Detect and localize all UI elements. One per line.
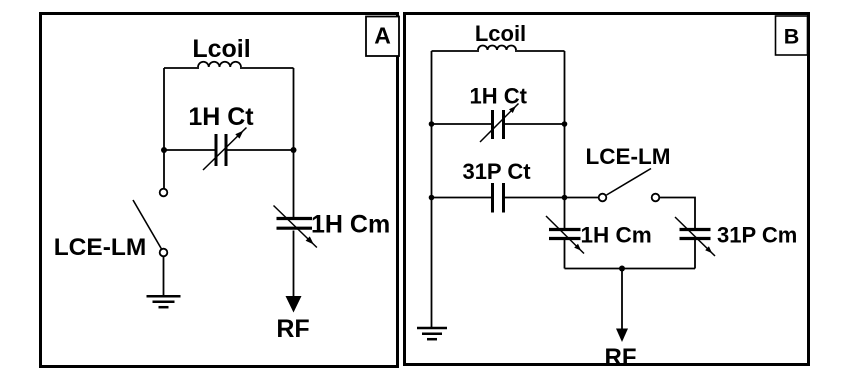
capacitor 1H Cm plates (B) — [549, 230, 581, 239]
wire top-right segment (A) — [240, 67, 294, 69]
wire switch to right branch (B) — [659, 198, 695, 230]
label 1H Cm (A) — [311, 211, 390, 239]
svg-text:Lcoil: Lcoil — [192, 35, 250, 63]
label LCE-LM (B) — [586, 144, 671, 169]
inductor Lcoil (B) — [478, 46, 516, 50]
label 1H Ct (A) — [188, 103, 254, 131]
svg-text:Lcoil: Lcoil — [475, 21, 526, 46]
svg-text:31P Ct: 31P Ct — [462, 159, 531, 184]
svg-text:1H Cm: 1H Cm — [311, 211, 390, 239]
wire junction to RF arrow (B) — [621, 269, 623, 330]
svg-text:B: B — [784, 25, 800, 49]
wire top-left segment (A) — [164, 67, 199, 69]
node rung2 dot left (B) — [429, 195, 435, 201]
capacitor 1H Cm variable arrow (B) — [546, 216, 584, 254]
wire bottom horizontal (B) — [565, 268, 696, 270]
wire from rung to switch (A) — [163, 150, 165, 189]
capacitor 31P Cm variable arrow (B) — [675, 217, 715, 256]
capacitor Cm plates (A) — [277, 219, 313, 229]
label 1H Ct (B) — [469, 84, 527, 109]
node junction dot left (A) — [161, 147, 167, 153]
svg-text:LCE-LM: LCE-LM — [586, 144, 671, 169]
label Lcoil (A) — [192, 35, 250, 63]
node junction dot right (A) — [291, 147, 297, 153]
wire right vertical of loop (A) — [293, 68, 295, 150]
wire left vertical of loop (A) — [163, 68, 165, 150]
label box A — [366, 17, 399, 57]
wire rung left segment (A) — [164, 149, 216, 151]
wire right vertical of loop (B) — [564, 51, 566, 229]
switch LCE-LM terminal 2 (A) — [160, 249, 168, 257]
inductor Lcoil (A) — [198, 62, 241, 67]
label Lcoil (B) — [475, 21, 526, 46]
wire rung1 left segment (B) — [432, 123, 493, 125]
wire top-right segment (B) — [515, 50, 565, 52]
label RF (A) — [276, 315, 309, 343]
wire rung right segment (A) — [226, 149, 294, 151]
ground (A) — [147, 296, 181, 307]
svg-text:A: A — [374, 23, 391, 49]
label 31P Cm (B) — [717, 223, 797, 248]
node bottom junction dot (B) — [619, 266, 625, 272]
wire switch to ground (A) — [163, 256, 165, 296]
capacitor 31P Cm plates (B) — [680, 230, 711, 239]
wire 1H Cm to bottom (B) — [564, 240, 566, 269]
capacitor Cm variable arrow (A) — [274, 206, 317, 248]
ground (B) — [417, 328, 447, 339]
svg-text:RF: RF — [276, 315, 309, 343]
capacitor 31P Ct plates (B) — [493, 183, 504, 213]
switch LCE-LM terminal 1 (A) — [160, 189, 168, 197]
wire Cm to RF arrow (A) — [293, 231, 295, 298]
switch LCE-LM blade (A) — [133, 200, 162, 249]
svg-text:RF: RF — [605, 344, 637, 371]
label LCE-LM (A) — [54, 234, 147, 261]
label box B — [776, 16, 808, 55]
switch LCE-LM terminal 1 (B) — [599, 194, 607, 202]
capacitor Ct plates (B) — [493, 110, 504, 139]
wire rung1 right segment (B) — [504, 123, 565, 125]
svg-text:LCE-LM: LCE-LM — [54, 234, 147, 261]
svg-text:31P Cm: 31P Cm — [717, 223, 797, 248]
RF output arrow head (A) — [286, 296, 302, 313]
label RF (B) — [605, 344, 637, 371]
capacitor Ct plates (A) — [216, 134, 226, 166]
wire rung2 left segment (B) — [432, 197, 493, 199]
capacitor Ct variable arrow (A) — [203, 128, 247, 171]
wire right branch to Cm (A) — [293, 150, 295, 218]
svg-text:1H Ct: 1H Ct — [188, 103, 254, 131]
wire rung2 to switch (B) — [504, 197, 599, 199]
wire 31P Cm to bottom (B) — [694, 240, 696, 269]
label 1H Cm (B) — [581, 223, 652, 248]
svg-text:1H Cm: 1H Cm — [581, 223, 652, 248]
switch LCE-LM blade (B) — [607, 169, 652, 196]
switch LCE-LM terminal 2 (B) — [652, 194, 660, 202]
RF output arrow head (B) — [616, 329, 628, 343]
capacitor Ct variable arrow (B) — [480, 104, 519, 143]
panel A frame — [41, 14, 398, 367]
node rung2 dot right (B) — [562, 195, 568, 201]
wire left vertical of loop (B) — [431, 51, 433, 328]
node rung1 dot left (B) — [429, 121, 435, 127]
label 31P Ct (B) — [462, 159, 531, 184]
node rung1 dot right (B) — [562, 121, 568, 127]
wire top-left segment (B) — [432, 50, 480, 52]
svg-text:1H Ct: 1H Ct — [469, 84, 527, 109]
panel B frame — [405, 14, 809, 365]
